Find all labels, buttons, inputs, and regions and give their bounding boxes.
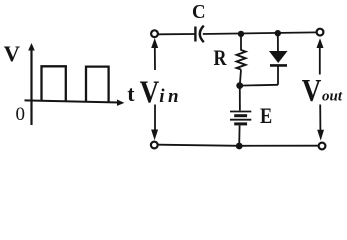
svg-text:R: R <box>214 45 228 70</box>
svg-text:t: t <box>127 81 135 106</box>
svg-text:V: V <box>140 73 160 109</box>
svg-text:V: V <box>302 72 322 108</box>
svg-text:in: in <box>159 86 182 107</box>
svg-text:out: out <box>322 88 343 104</box>
svg-text:E: E <box>260 103 272 128</box>
svg-text:0: 0 <box>16 104 26 125</box>
svg-text:C: C <box>192 1 206 23</box>
svg-text:V: V <box>4 41 21 66</box>
